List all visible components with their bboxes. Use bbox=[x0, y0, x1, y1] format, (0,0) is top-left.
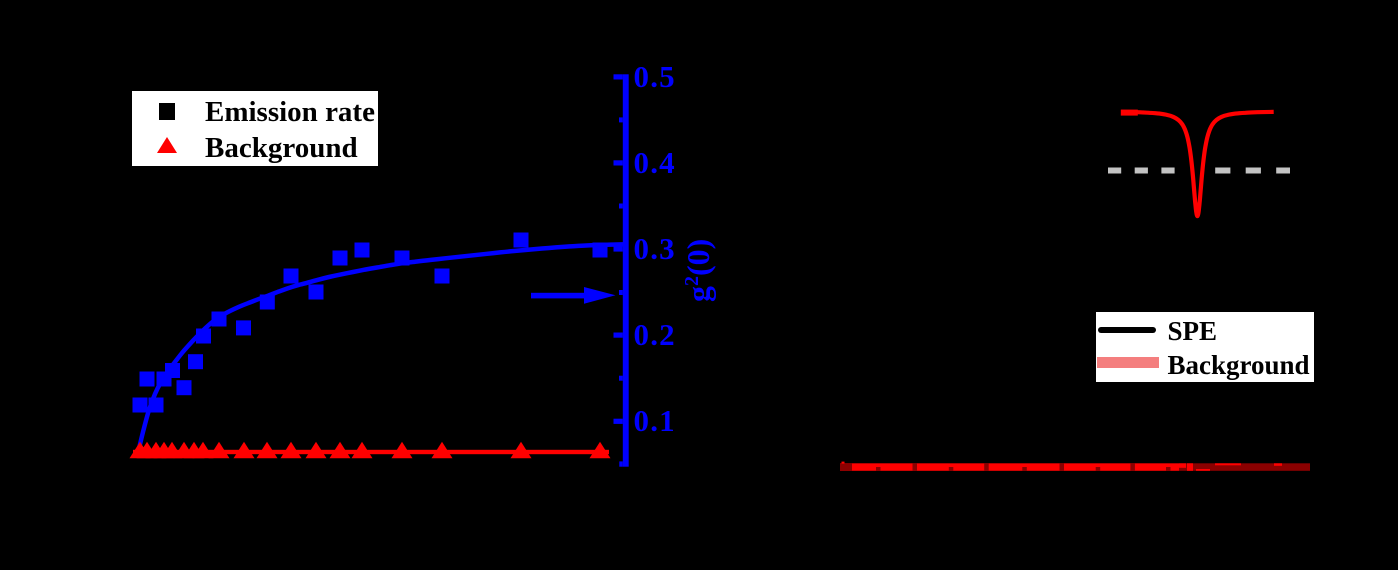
right legend box bbox=[1096, 312, 1314, 382]
legend text: Background bbox=[205, 134, 358, 163]
legend sample: pink line (Background) bbox=[1097, 357, 1159, 368]
major ticks bbox=[614, 74, 623, 466]
bottom red background trace (right panel): bright part bbox=[840, 463, 1179, 471]
left legend box bbox=[132, 91, 378, 166]
legend marker: red triangle bbox=[157, 137, 177, 153]
bright specks on dark part bbox=[842, 462, 1283, 471]
legend marker: black square bbox=[159, 103, 175, 120]
blue arrow pointing to right axis bbox=[531, 293, 586, 299]
legend text: Background bbox=[1168, 352, 1310, 379]
blue fit curve bbox=[137, 244, 625, 457]
red antibunching dip curve bbox=[1121, 112, 1273, 216]
dark red right part of trace bbox=[1179, 463, 1310, 471]
dark left tip bbox=[840, 463, 852, 471]
legend text: SPE bbox=[1168, 318, 1218, 345]
minor ticks bbox=[619, 117, 623, 380]
legend text: Emission rate bbox=[205, 98, 375, 127]
gray dashed line (0.5 level, right panel) bbox=[1108, 168, 1175, 174]
dip curve left-end bulge bbox=[1121, 110, 1138, 116]
right axis tick labels bbox=[634, 61, 676, 92]
legend sample: black line (SPE) bbox=[1098, 327, 1156, 333]
red triangle data points (Background) bbox=[130, 442, 611, 459]
red background line (left plot) bbox=[133, 450, 609, 454]
blue right axis spine bbox=[623, 74, 629, 466]
rotated axis label g2(0) bbox=[682, 238, 719, 301]
dark tick notches on bright trace bbox=[876, 463, 1171, 471]
blue square data points (Emission rate) bbox=[133, 233, 608, 413]
